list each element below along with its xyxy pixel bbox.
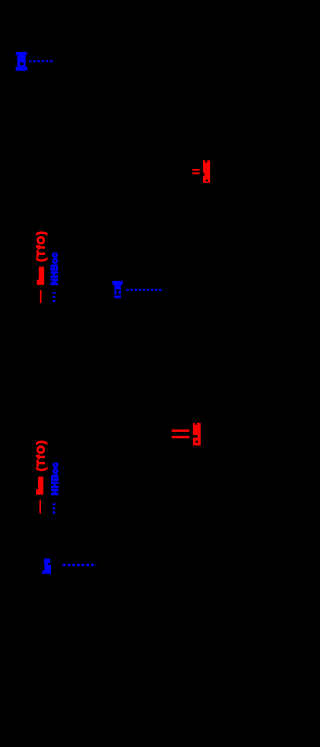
hydrogen bond dashes from N1-H	[29, 60, 54, 62]
label N1-H (blue amine glyph, top structure)	[16, 52, 27, 71]
red bond line (bottom structure)	[39, 500, 41, 513]
hydrogen bond dashes from bottom blue glyph	[63, 564, 96, 567]
label S / N3-H (blue glyph, bottom structure)	[42, 559, 51, 574]
carbonyl O1 atom label (red)	[203, 160, 210, 183]
blue hydrogen bond dots below text (top structure)	[53, 292, 56, 303]
red bond line (top structure)	[40, 290, 42, 303]
carbonyl O2 double bond (red, bottom structure)	[172, 430, 190, 439]
svg-text:NHBoc: NHBoc	[50, 462, 61, 495]
svg-text:(TfO): (TfO)	[35, 231, 47, 262]
label N2-H (blue amine glyph, middle)	[112, 281, 122, 298]
blue hydrogen bond dots below text (bottom structure)	[53, 503, 55, 514]
carbonyl O2 atom label (red)	[193, 423, 201, 446]
svg-text:(TfO): (TfO)	[35, 440, 47, 471]
carbonyl O1 double bond (red, top right)	[192, 169, 199, 174]
svg-text:NHBoc: NHBoc	[50, 252, 61, 285]
red bold atom glyph below text (top structure)	[37, 267, 44, 285]
red bold atom glyph below text (bottom structure)	[36, 477, 43, 495]
hydrogen bond dashes from N2-H	[126, 289, 162, 291]
